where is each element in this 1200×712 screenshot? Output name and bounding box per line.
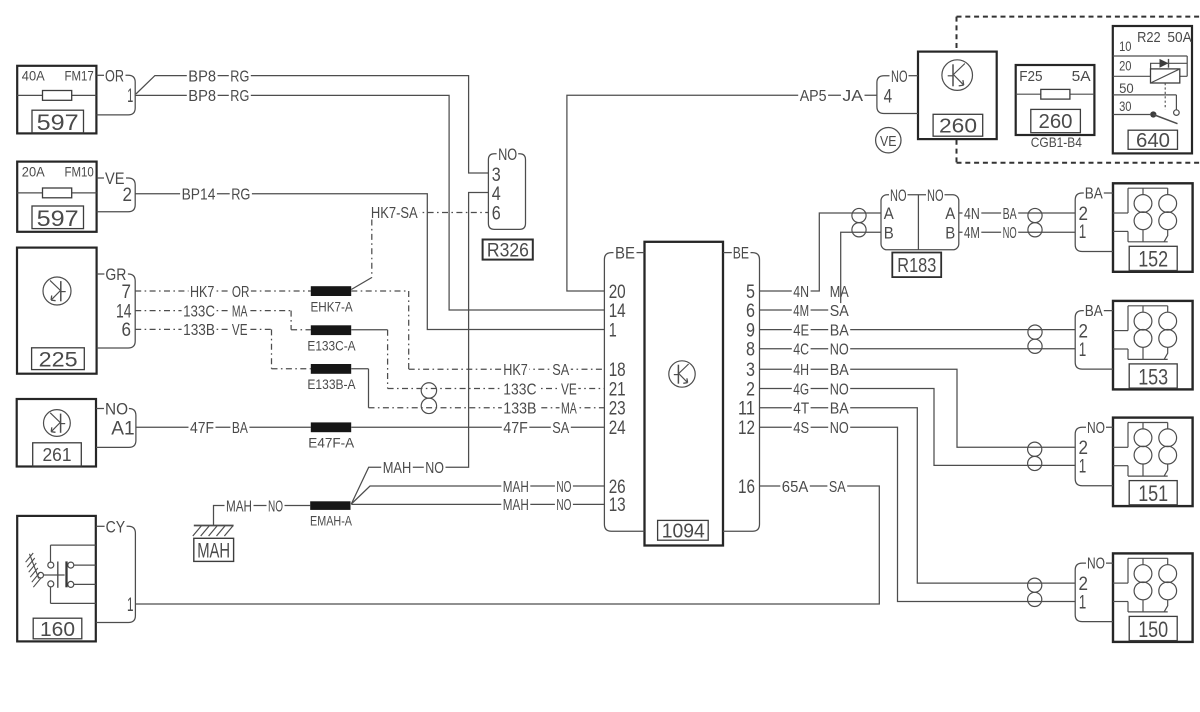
- svg-text:R326: R326: [487, 240, 529, 261]
- twisted-pair symbol: [1028, 208, 1042, 222]
- wire HK7-OR dashed: unit 225 pin7 to splice EHK7-A: [135, 290, 311, 292]
- connector of 160: [96, 525, 106, 527]
- label 151: [1129, 481, 1177, 505]
- svg-text:NO: NO: [890, 186, 907, 205]
- svg-text:B: B: [945, 223, 955, 242]
- twisted-pair symbol: [421, 383, 436, 398]
- svg-text:1: 1: [609, 320, 617, 341]
- lamp bulbs in 151: [1134, 429, 1152, 447]
- svg-text:CY: CY: [106, 517, 126, 536]
- fuse symbol FM17: [43, 91, 72, 101]
- connector R326: [488, 154, 525, 230]
- twisted-pair symbol: [852, 208, 866, 222]
- svg-text:47F: 47F: [190, 420, 214, 437]
- svg-text:BA: BA: [1085, 186, 1104, 203]
- svg-text:133C: 133C: [503, 381, 536, 398]
- lamp unit 150 box: [1113, 553, 1193, 642]
- svg-text:OR: OR: [105, 66, 124, 85]
- wire 4N-BA: R183 pinA to lamp 152 pin2: [959, 212, 1075, 214]
- svg-text:3: 3: [746, 360, 755, 381]
- svg-text:MAH: MAH: [503, 497, 529, 514]
- svg-text:BA: BA: [1003, 206, 1017, 223]
- fuse symbol F25: [1041, 89, 1070, 99]
- wire MAH-NO: splice EMAH-A to 1094 pin26: [351, 486, 604, 504]
- svg-text:1: 1: [127, 595, 134, 616]
- lamp unit 152 box: [1113, 183, 1193, 271]
- splice EHK7-A: [311, 286, 351, 296]
- wire 65A-SA: 1094 pin16 down to switch 160 pin1: [135, 486, 879, 604]
- svg-text:225: 225: [39, 349, 78, 372]
- fuse box F25: [1016, 65, 1095, 135]
- svg-text:AP5: AP5: [800, 88, 827, 105]
- svg-text:BA: BA: [830, 401, 849, 418]
- svg-text:BP8: BP8: [188, 68, 216, 85]
- lamp unit 153 box: [1113, 301, 1193, 390]
- svg-text:A1: A1: [111, 418, 134, 439]
- connector of 261: [96, 408, 105, 410]
- svg-text:1: 1: [1079, 592, 1087, 613]
- label 152: [1129, 246, 1177, 270]
- connector pin2 of 597 bottom: [97, 177, 105, 179]
- svg-text:8: 8: [746, 340, 755, 361]
- svg-text:20: 20: [1119, 58, 1132, 74]
- svg-text:BA: BA: [830, 322, 849, 339]
- svg-text:4M: 4M: [793, 303, 809, 320]
- relay coil: [1151, 69, 1180, 83]
- svg-text:MA: MA: [561, 401, 577, 418]
- svg-text:24: 24: [609, 418, 626, 439]
- connector bracket of 152: [1075, 193, 1113, 252]
- wire 4T-BA: 1094 pin11 to lamp 150 pin2: [760, 408, 1076, 583]
- label 260 of fuse box: [1031, 109, 1081, 132]
- svg-text:4H: 4H: [793, 362, 809, 379]
- mechanical link / pivot of 160: [26, 553, 34, 562]
- wire HK7-SA dashed: splice EHK7-A up to R326 pin6: [370, 212, 488, 214]
- svg-text:E133C-A: E133C-A: [307, 338, 355, 353]
- K symbol of 261: [44, 410, 71, 437]
- control unit 225 box: [17, 248, 97, 374]
- wire 4N-MA: 1094 pin5 up to R183 pinA: [760, 213, 882, 291]
- svg-text:A: A: [945, 204, 956, 223]
- svg-text:10: 10: [1119, 38, 1132, 54]
- svg-text:VE: VE: [232, 322, 248, 339]
- svg-text:NO: NO: [425, 460, 444, 477]
- connector bracket of 150: [1075, 563, 1113, 622]
- svg-text:NO: NO: [1003, 225, 1017, 242]
- svg-text:152: 152: [1138, 247, 1168, 272]
- svg-text:30: 30: [1119, 98, 1132, 114]
- svg-text:2: 2: [746, 379, 755, 400]
- svg-text:133C: 133C: [183, 303, 215, 320]
- wire MAH-NO: splice EMAH-A up to R326 pin4: [351, 193, 488, 505]
- connector pin4 of 260: [877, 76, 918, 114]
- splice EMAH-A: [310, 501, 350, 510]
- wire MAH-NO: ground MAH to splice EMAH-A: [214, 506, 311, 526]
- twisted-pair symbol: [1028, 442, 1042, 456]
- svg-text:BE: BE: [733, 244, 749, 263]
- flyback diode of relay: [1151, 63, 1188, 76]
- label R326: [483, 240, 533, 260]
- wire BP8-RG lower: fuse 597 pin1 to 1094 pin14: [135, 95, 604, 310]
- svg-text:OR: OR: [232, 284, 250, 301]
- svg-text:BP8: BP8: [188, 88, 216, 105]
- twisted-pair symbol: [1028, 578, 1042, 592]
- svg-text:1: 1: [1079, 340, 1087, 361]
- svg-text:R183: R183: [897, 255, 936, 277]
- svg-text:597: 597: [37, 110, 79, 135]
- svg-text:NO: NO: [830, 342, 849, 359]
- svg-text:MAH: MAH: [197, 540, 230, 563]
- K symbol of 260: [942, 60, 973, 91]
- svg-text:E133B-A: E133B-A: [307, 377, 355, 392]
- svg-text:47F: 47F: [503, 420, 528, 437]
- svg-text:NO: NO: [556, 479, 571, 496]
- svg-text:HK7-SA: HK7-SA: [371, 205, 418, 222]
- switch lever: [44, 574, 65, 576]
- label 261: [33, 443, 82, 466]
- lamp bulbs in 153: [1134, 312, 1152, 330]
- svg-text:6: 6: [122, 320, 132, 341]
- svg-text:BA: BA: [830, 362, 849, 379]
- svg-text:NO: NO: [1087, 420, 1105, 437]
- lamp unit 151 box: [1113, 418, 1193, 507]
- wire 47F-SA: splice E47F-A to 1094 pin24: [351, 426, 604, 428]
- wire 133B-MA dashed: splice E133B-A to 1094 pin23: [351, 368, 368, 370]
- svg-text:597: 597: [37, 206, 79, 231]
- svg-text:261: 261: [43, 445, 72, 465]
- svg-text:MAH: MAH: [503, 479, 529, 496]
- wire 4H-BA: 1094 pin3 to lamp 151 pin2: [760, 369, 1076, 447]
- label 260: [933, 114, 983, 136]
- svg-text:7: 7: [122, 282, 132, 303]
- svg-text:NO: NO: [556, 497, 571, 514]
- control unit 261 box: [17, 399, 96, 467]
- fuse box 597 (40A FM17): [17, 66, 96, 134]
- svg-text:SA: SA: [552, 362, 569, 379]
- relay contact (normally open): [1174, 110, 1180, 116]
- svg-text:20A: 20A: [22, 163, 45, 179]
- svg-text:VE: VE: [561, 381, 577, 398]
- svg-text:BA: BA: [232, 420, 248, 437]
- svg-text:4T: 4T: [793, 401, 809, 418]
- svg-text:BA: BA: [1085, 303, 1104, 320]
- wire 4S-NO: 1094 pin12 to lamp 150 pin1: [760, 427, 1076, 601]
- lamp bulbs in 150: [1134, 565, 1152, 583]
- svg-text:RG: RG: [231, 187, 250, 204]
- svg-text:4: 4: [884, 87, 893, 108]
- svg-text:18: 18: [609, 360, 626, 381]
- left connector bracket BE of 1094: [604, 253, 644, 532]
- svg-text:HK7: HK7: [190, 284, 214, 301]
- wire 47F-BA: unit 261 pinA1 to splice E47F-A: [136, 426, 311, 428]
- svg-text:9: 9: [746, 320, 755, 341]
- svg-text:1: 1: [127, 86, 133, 107]
- K symbol of 1094: [669, 361, 695, 387]
- svg-text:133B: 133B: [503, 401, 536, 418]
- svg-text:1: 1: [1079, 457, 1087, 478]
- coil-contact mechanical link: [1164, 83, 1166, 110]
- ground MAH: [194, 525, 234, 527]
- svg-text:EHK7-A: EHK7-A: [311, 299, 353, 314]
- wire BP14-RG: fuse 597 pin2 to 1094 pin1: [135, 194, 604, 330]
- svg-text:SA: SA: [552, 420, 569, 437]
- wire HK7-SA dashed: splice EHK7-A to 1094 pin18: [351, 290, 408, 292]
- svg-text:CGB1-B4: CGB1-B4: [1031, 134, 1082, 150]
- svg-text:3: 3: [492, 165, 501, 186]
- svg-text:HK7: HK7: [503, 362, 528, 379]
- control unit 1094 box: [645, 242, 724, 546]
- svg-text:4: 4: [492, 184, 501, 205]
- svg-text:260: 260: [1039, 111, 1073, 133]
- svg-text:23: 23: [609, 399, 626, 420]
- svg-text:13: 13: [609, 495, 626, 516]
- connector bracket of 153: [1075, 311, 1113, 370]
- svg-text:1: 1: [1079, 222, 1087, 243]
- svg-text:640: 640: [1136, 130, 1170, 152]
- svg-text:150: 150: [1138, 617, 1168, 642]
- svg-text:153: 153: [1138, 364, 1168, 389]
- wire 4E-BA: 1094 pin9 to lamp 153 pin2: [760, 329, 1076, 331]
- svg-text:20: 20: [609, 282, 626, 303]
- wire 4G-NO: 1094 pin2 to lamp 151 pin1: [760, 389, 1076, 466]
- label 597: [32, 110, 84, 133]
- svg-text:160: 160: [40, 619, 75, 641]
- fuse symbol FM10: [43, 188, 72, 198]
- connector bracket of 151: [1075, 427, 1113, 486]
- wire 4M-NO: R183 pinB to lamp 152 pin1: [959, 231, 1075, 233]
- svg-text:NO: NO: [498, 145, 517, 164]
- svg-text:FM10: FM10: [65, 163, 94, 179]
- svg-text:R22: R22: [1137, 29, 1161, 46]
- svg-text:6: 6: [746, 301, 755, 322]
- label MAH: [194, 538, 234, 561]
- svg-text:NO: NO: [830, 381, 849, 398]
- wire 133C-VE dashed: splice E133C-A to 1094 pin21: [351, 329, 387, 331]
- connector pin1 of 597 top: [96, 74, 105, 76]
- svg-text:21: 21: [609, 379, 626, 400]
- svg-text:RG: RG: [230, 68, 249, 85]
- svg-text:RG: RG: [230, 88, 249, 105]
- connector of 225: [97, 273, 106, 275]
- label 640: [1128, 130, 1177, 149]
- svg-text:4S: 4S: [793, 420, 809, 437]
- svg-text:JA: JA: [842, 88, 863, 105]
- svg-text:40A: 40A: [22, 68, 45, 84]
- svg-text:NO: NO: [830, 420, 849, 437]
- svg-text:5: 5: [746, 282, 755, 303]
- switch unit 160 box: [17, 516, 96, 642]
- svg-text:SA: SA: [829, 479, 846, 496]
- K symbol of 225: [43, 277, 71, 305]
- svg-text:16: 16: [738, 477, 755, 498]
- right connector bracket BE of 1094: [723, 253, 760, 532]
- wire 4C-NO: 1094 pin8 to lamp 153 pin1: [760, 348, 1076, 350]
- svg-text:4E: 4E: [793, 322, 809, 339]
- svg-text:133B: 133B: [183, 322, 215, 339]
- svg-text:6: 6: [492, 203, 501, 224]
- svg-text:B: B: [884, 223, 894, 242]
- control unit 260 box: [918, 52, 997, 140]
- svg-text:NO: NO: [1087, 556, 1105, 573]
- label 153: [1129, 364, 1177, 388]
- lamp bulbs in 152: [1134, 195, 1152, 213]
- svg-text:BE: BE: [615, 244, 635, 263]
- svg-text:12: 12: [738, 418, 755, 439]
- splice E47F-A: [311, 422, 351, 432]
- label 1094: [658, 520, 709, 540]
- svg-text:260: 260: [939, 116, 977, 138]
- svg-text:65A: 65A: [782, 479, 809, 496]
- connector R183: [881, 195, 959, 250]
- svg-text:MA: MA: [232, 303, 248, 320]
- svg-text:FM17: FM17: [65, 68, 94, 84]
- splice E133C-A: [311, 325, 351, 335]
- svg-text:4M: 4M: [964, 225, 980, 242]
- label 225: [32, 348, 85, 370]
- wire MAH-NO: splice EMAH-A to 1094 pin13: [351, 503, 604, 505]
- fuse box 597 (20A FM10): [17, 162, 96, 232]
- svg-text:E47F-A: E47F-A: [308, 436, 354, 451]
- svg-text:4C: 4C: [793, 342, 809, 359]
- svg-text:4N: 4N: [964, 206, 980, 223]
- svg-text:F25: F25: [1019, 68, 1042, 85]
- twisted-pair symbol: [1028, 325, 1042, 339]
- label R183: [892, 253, 941, 278]
- svg-text:EMAH-A: EMAH-A: [310, 513, 352, 528]
- svg-text:MAH: MAH: [383, 460, 412, 477]
- svg-text:A: A: [884, 204, 895, 223]
- label 597: [32, 206, 84, 229]
- label 150: [1129, 616, 1177, 640]
- wire AP5-JA: 1094 pin20 to unit 260 pin4: [567, 95, 877, 291]
- wire 133C-MA dashed: unit 225 pin14 to splice E133C-A: [135, 310, 291, 312]
- svg-text:151: 151: [1138, 481, 1168, 506]
- svg-text:NO: NO: [105, 400, 128, 419]
- svg-text:NO: NO: [927, 186, 944, 205]
- svg-text:MAH: MAH: [226, 498, 252, 515]
- dashed option-variant border: [957, 16, 1200, 18]
- wire BP8-RG upper: fuse 597 pin1 to R326 pin3: [136, 76, 489, 173]
- svg-text:SA: SA: [830, 303, 849, 320]
- svg-text:MA: MA: [830, 284, 849, 301]
- relay 640 box: [1113, 26, 1192, 153]
- svg-text:NO: NO: [268, 498, 283, 515]
- svg-text:2: 2: [123, 185, 133, 206]
- svg-text:11: 11: [738, 399, 755, 420]
- svg-text:14: 14: [609, 301, 626, 322]
- svg-text:NO: NO: [891, 67, 908, 86]
- switch mechanism of 160: [51, 544, 96, 546]
- splice E133B-A: [311, 364, 351, 374]
- svg-text:4N: 4N: [793, 284, 809, 301]
- harness code VE: [876, 128, 901, 153]
- label 160: [33, 618, 82, 639]
- svg-text:5A: 5A: [1072, 68, 1091, 85]
- svg-text:50: 50: [1119, 80, 1134, 96]
- svg-text:BP14: BP14: [182, 187, 216, 204]
- svg-text:4G: 4G: [793, 381, 809, 398]
- svg-text:VE: VE: [880, 133, 897, 150]
- svg-text:1094: 1094: [662, 521, 705, 543]
- wire 133B-VE dashed: unit 225 pin6 to splice E133B-A: [135, 328, 271, 330]
- wire 4M-SA: 1094 pin6 up to R183 pinB: [760, 232, 882, 310]
- svg-text:50A: 50A: [1167, 29, 1191, 46]
